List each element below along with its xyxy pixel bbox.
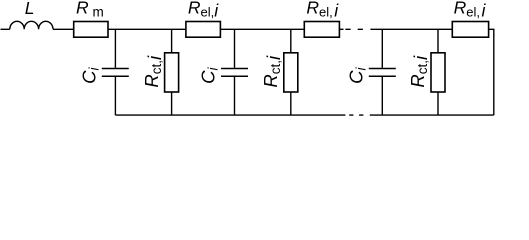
svg-text:Rct,i: Rct,i [407,55,431,88]
resistor Rct,i 3 [431,29,445,115]
capacitor Ci 1 [102,29,129,115]
capacitor Ci 2 [221,29,248,115]
svg-text:Ci: Ci [346,67,369,84]
wire bottom dashes [349,114,363,116]
wire top rail section 2 [220,28,304,30]
wire bottom rail right [370,114,494,116]
wire bottom rail left [115,114,345,116]
svg-text:Rct,i: Rct,i [260,55,284,88]
inductor L [10,21,53,29]
resistor Rct,i 1 [165,29,179,115]
resistor Rm [74,22,108,38]
wire top rail section 3 [370,28,452,30]
svg-text:Rct,i: Rct,i [141,55,165,88]
wire right end [489,29,494,115]
resistor Rel,i C [452,22,488,38]
svg-text:Rel,i: Rel,i [306,0,339,20]
svg-text:Rm: Rm [76,0,104,19]
wire top dashes [345,28,363,30]
wire left lead [1,28,10,30]
capacitor Ci 3 [369,29,396,115]
svg-text:Ci: Ci [79,67,102,84]
resistor Rct,i 2 [284,29,298,115]
wire inductor to Rm [53,28,74,30]
svg-text:Rel,i: Rel,i [188,0,219,20]
resistor Rel,i A [186,22,221,38]
wire top rail section 1 [108,28,186,30]
svg-text:Ci: Ci [198,67,221,84]
svg-text:L: L [25,0,35,18]
wire top break stub [340,28,344,30]
svg-text:Rel,i: Rel,i [454,0,487,20]
resistor Rel,i B [304,22,339,38]
